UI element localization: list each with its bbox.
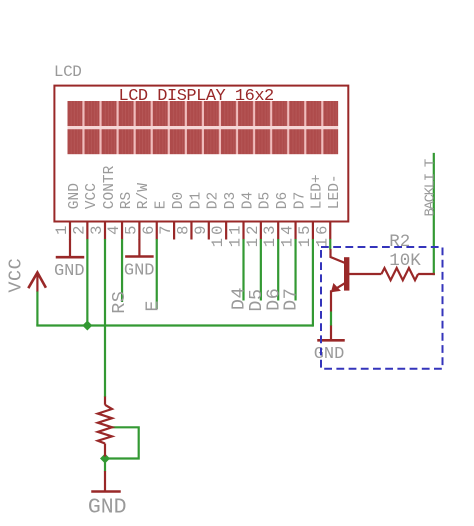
svg-text:LED+: LED+: [310, 174, 326, 209]
svg-text:D6: D6: [275, 192, 291, 209]
svg-text:R/W: R/W: [136, 183, 152, 209]
svg-text:15: 15: [296, 223, 314, 248]
svg-text:D4: D4: [240, 192, 256, 209]
svg-text:D3: D3: [223, 192, 239, 209]
svg-text:10K: 10K: [389, 251, 421, 271]
svg-text:BACKLI T: BACKLI T: [423, 159, 439, 216]
svg-text:4: 4: [105, 223, 123, 235]
svg-text:D7: D7: [281, 288, 302, 311]
svg-text:GND: GND: [67, 183, 83, 209]
svg-text:D0: D0: [171, 192, 187, 209]
svg-text:GND: GND: [54, 262, 85, 281]
svg-text:D7: D7: [292, 192, 308, 209]
svg-text:CONTR: CONTR: [102, 165, 118, 209]
svg-text:12: 12: [244, 223, 262, 248]
svg-text:6: 6: [140, 223, 158, 235]
svg-text:D2: D2: [206, 192, 222, 209]
svg-text:2: 2: [70, 223, 88, 235]
svg-text:1: 1: [53, 223, 71, 235]
svg-text:LED-: LED-: [327, 174, 343, 209]
svg-text:3: 3: [88, 223, 106, 235]
svg-text:D1: D1: [188, 192, 204, 209]
svg-text:VCC: VCC: [84, 183, 100, 209]
svg-text:8: 8: [174, 223, 192, 235]
svg-text:RS: RS: [109, 291, 130, 314]
svg-text:LCD DISPLAY 16x2: LCD DISPLAY 16x2: [119, 87, 274, 106]
svg-text:GND: GND: [314, 345, 345, 364]
svg-text:LCD: LCD: [54, 63, 82, 81]
svg-text:5: 5: [122, 223, 140, 235]
svg-text:7: 7: [157, 223, 175, 235]
svg-text:16: 16: [313, 223, 331, 248]
svg-text:RS: RS: [119, 192, 135, 209]
svg-text:9: 9: [192, 223, 210, 235]
svg-text:R2: R2: [389, 232, 410, 252]
svg-text:14: 14: [279, 223, 297, 248]
svg-text:13: 13: [261, 223, 279, 248]
svg-text:VCC: VCC: [6, 258, 27, 293]
svg-text:GND: GND: [124, 262, 155, 281]
svg-text:E: E: [143, 300, 164, 312]
svg-text:E: E: [154, 200, 170, 209]
svg-text:GND: GND: [88, 495, 127, 519]
svg-text:11: 11: [227, 223, 245, 248]
svg-text:D5: D5: [258, 192, 274, 209]
svg-text:10: 10: [209, 223, 227, 248]
